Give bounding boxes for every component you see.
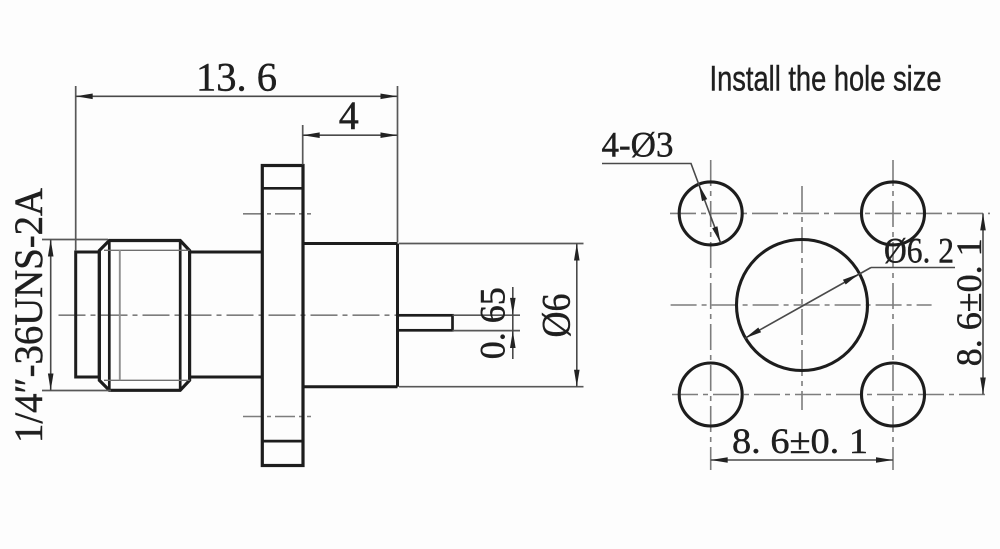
svg-text:4-Ø3: 4-Ø3 xyxy=(602,125,674,165)
nut chamfer line top xyxy=(104,249,190,251)
label diameter 6.2 with leader xyxy=(745,231,955,339)
svg-text:Install the hole size: Install the hole size xyxy=(710,60,942,99)
dimension 4 xyxy=(303,93,398,165)
hole pattern centerline vertical left xyxy=(710,160,712,470)
svg-text:8. 6±0. 1: 8. 6±0. 1 xyxy=(732,421,868,461)
connector end cap xyxy=(76,252,100,377)
hole pattern centerline horizontal bottom xyxy=(672,394,990,396)
nut chamfer boundary right xyxy=(179,241,182,391)
hole pattern centerline horizontal middle xyxy=(671,304,932,306)
dimension diameter 6 xyxy=(399,244,584,387)
hole pattern centerline horizontal top xyxy=(670,212,990,214)
flange hole axis upper xyxy=(243,213,311,215)
center hole xyxy=(737,240,868,371)
flange hole upper edge xyxy=(262,187,303,190)
coupling nut outline xyxy=(99,241,189,391)
flange hole axis lower xyxy=(243,416,311,418)
mounting hole top-left xyxy=(679,182,742,245)
barrel top edge xyxy=(190,251,263,254)
label 4-diameter3 with leader xyxy=(602,125,721,244)
axis centerline xyxy=(59,314,398,316)
flange plate xyxy=(262,166,303,466)
hole pattern centerline vertical middle xyxy=(801,186,803,410)
svg-text:1/4″-36UNS-2A: 1/4″-36UNS-2A xyxy=(6,188,51,443)
body right edge xyxy=(396,244,399,387)
nut chamfer boundary left xyxy=(108,241,111,391)
nut chamfer line bottom xyxy=(104,379,190,381)
svg-text:Ø6. 2: Ø6. 2 xyxy=(884,231,954,271)
body bottom edge xyxy=(303,385,398,388)
dimension 0.65 xyxy=(453,287,521,359)
contact pin xyxy=(398,315,453,330)
svg-text:13. 6: 13. 6 xyxy=(196,55,277,100)
thread callout 1/4-36UNS-2A xyxy=(6,188,111,443)
barrel bottom edge xyxy=(190,376,263,379)
svg-text:Ø6: Ø6 xyxy=(534,294,579,338)
mounting hole bottom-left xyxy=(679,363,742,426)
dimension 8.6 bottom xyxy=(711,421,893,463)
dimension 13.6 xyxy=(76,55,398,252)
svg-text:4: 4 xyxy=(339,93,359,138)
mounting hole top-right xyxy=(862,182,925,245)
svg-text:0. 65: 0. 65 xyxy=(473,287,513,359)
dimension 8.6 right xyxy=(949,213,989,394)
svg-text:8. 6±0. 1: 8. 6±0. 1 xyxy=(949,238,989,366)
body top edge xyxy=(303,242,398,245)
thread line xyxy=(119,250,121,380)
mounting hole bottom-right xyxy=(862,363,925,426)
flange hole lower edge xyxy=(262,440,303,443)
hole pattern centerline vertical right xyxy=(892,160,894,470)
